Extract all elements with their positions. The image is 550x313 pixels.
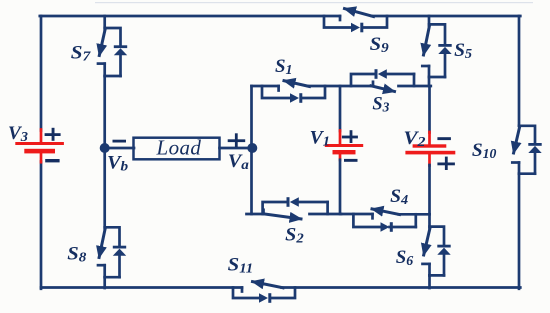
wire S5 bottom bracket xyxy=(429,76,445,79)
wire S8 bottom terminal xyxy=(103,265,106,277)
wire top right segment xyxy=(372,15,520,18)
wire V2 red stub bottom xyxy=(428,154,431,165)
wire S4 right stub to V2 bottom xyxy=(399,213,430,216)
wire S10 top bracket xyxy=(519,126,535,144)
diode D7 xyxy=(114,45,127,48)
wire S10 diode lower branch xyxy=(534,153,537,174)
wire S1 left bracket xyxy=(262,86,290,98)
wire S10 bottom terminal xyxy=(518,163,521,174)
svg-text:S1: S1 xyxy=(275,56,293,78)
wire V1 bottom blue xyxy=(339,160,342,214)
node S2 fixed contact tick xyxy=(262,210,265,214)
svg-text:S6: S6 xyxy=(396,247,414,269)
wire S7 bottom bracket xyxy=(105,75,121,78)
diode D3 xyxy=(375,69,378,79)
wire S8 bottom bracket xyxy=(105,276,120,279)
switch S11 xyxy=(233,282,295,303)
wire V3 red stub top xyxy=(40,130,43,144)
node S5 fixed contact tick xyxy=(422,65,429,68)
faint cropped figure border at top xyxy=(95,2,533,3)
wire S5 top bracket xyxy=(429,24,445,44)
svg-text:S5: S5 xyxy=(454,40,472,62)
wire S2 right stub to V1 bottom xyxy=(310,213,342,216)
wire S2 diode branch right xyxy=(299,201,328,204)
svg-text:S3: S3 xyxy=(372,93,389,115)
switch S6 blade xyxy=(424,228,430,256)
diode D10 xyxy=(528,143,541,146)
node Va xyxy=(247,143,257,153)
wire S3 right bracket xyxy=(413,74,416,86)
svg-text:Load: Load xyxy=(156,136,202,160)
minus sign V1 xyxy=(344,159,358,162)
switch S7 blade xyxy=(99,29,105,56)
minus sign V2 xyxy=(437,137,451,140)
switch S2 xyxy=(247,197,342,219)
plus sign V2 xyxy=(437,157,455,170)
wire S2 left bracket xyxy=(263,202,287,214)
switch S3 blade xyxy=(371,86,395,92)
wire S9 right bracket xyxy=(364,16,388,28)
svg-text:S11: S11 xyxy=(228,255,254,276)
switch S5 blade xyxy=(424,25,430,55)
svg-text:S10: S10 xyxy=(472,140,497,161)
node Vb xyxy=(100,143,110,153)
diode D8 xyxy=(113,246,126,249)
svg-text:V1: V1 xyxy=(310,129,331,150)
diode D1 xyxy=(290,93,299,103)
load box xyxy=(105,138,253,160)
wire S7 to node Vb xyxy=(103,76,106,148)
minus sign V3 xyxy=(45,159,59,162)
battery V1 xyxy=(325,86,363,214)
wire right border lower (from S10) xyxy=(518,174,521,289)
wire V2 top blue xyxy=(428,86,431,133)
switch S1 blade xyxy=(284,81,310,87)
wire Vb to load xyxy=(105,147,134,150)
switch S1 xyxy=(252,81,374,103)
wire S11 right bracket xyxy=(272,288,296,299)
switch S9 blade xyxy=(345,9,374,17)
wire load to Va xyxy=(220,147,253,150)
wire S4 right bracket xyxy=(414,214,417,227)
node S6 fixed contact tick xyxy=(423,263,430,266)
wire S1 right bracket xyxy=(303,86,326,98)
switch S9 xyxy=(324,9,387,33)
battery V3 xyxy=(15,128,64,163)
wire S6 diode lower branch xyxy=(443,254,446,275)
plus sign V3 xyxy=(45,128,61,141)
wire left border upper (to V3) xyxy=(40,16,43,131)
switch S4 xyxy=(341,209,430,232)
switch S4 blade xyxy=(372,209,400,215)
svg-text:V2: V2 xyxy=(404,129,426,150)
wire top left segment xyxy=(40,15,340,18)
minus sign at Vb xyxy=(113,140,127,143)
node S4 fixed contact tick xyxy=(371,214,374,218)
wire S5 bottom terminal xyxy=(428,66,431,77)
wire S6 top bracket xyxy=(430,227,445,245)
wire bottom right segment xyxy=(282,286,521,289)
wire S7 bottom terminal xyxy=(103,64,106,76)
wire V1 top blue xyxy=(339,86,342,131)
wire S4 diode branch right xyxy=(390,226,416,229)
switch S2 blade xyxy=(265,214,302,219)
wire S7 diode lower branch xyxy=(119,55,122,76)
wire V1 red stub bottom xyxy=(339,154,342,160)
switch S6 xyxy=(423,214,451,288)
load rectangle xyxy=(134,138,220,160)
svg-text:S4: S4 xyxy=(390,186,408,208)
svg-text:V3: V3 xyxy=(8,124,28,145)
wire V1 red stub top xyxy=(339,131,342,145)
wire S6 to bottom rail xyxy=(428,275,431,288)
wire S6 bottom terminal xyxy=(428,264,431,276)
node S3 fixed contact tick xyxy=(372,82,375,86)
svg-text:S7: S7 xyxy=(71,43,92,65)
wire S11 left bracket xyxy=(233,288,259,299)
switch S7 xyxy=(98,16,127,148)
diode D11 xyxy=(259,293,268,303)
plate V1 positive (long) xyxy=(325,144,363,147)
wire S5 top feed xyxy=(428,16,431,26)
svg-text:S2: S2 xyxy=(285,225,304,247)
wire S5 to S3 row xyxy=(428,77,431,86)
wire left border lower (from V3) xyxy=(40,162,43,289)
wire S3 left bracket xyxy=(351,74,375,86)
node S7 fixed contact tick xyxy=(98,62,105,65)
wire S6 top feed xyxy=(428,214,431,228)
svg-text:S9: S9 xyxy=(370,34,389,56)
diode D5 xyxy=(438,44,451,47)
wire S7 top feed xyxy=(103,16,106,29)
wire S8 to bottom rail xyxy=(103,277,106,288)
plus sign V1 xyxy=(342,130,358,143)
wire S2 right bracket xyxy=(326,202,329,214)
wire S4 left stub xyxy=(341,213,373,216)
switch S10 blade xyxy=(514,127,520,153)
diode D4 xyxy=(381,222,390,232)
wire bottom left segment xyxy=(41,286,242,289)
switch S8 blade xyxy=(99,228,105,258)
wire S8 diode lower branch xyxy=(118,255,121,277)
svg-text:Vb: Vb xyxy=(107,154,128,175)
node S1 fixed contact tick xyxy=(277,86,280,91)
switch S5 xyxy=(422,16,451,86)
svg-text:Va: Va xyxy=(228,152,249,173)
diode D2 xyxy=(287,197,290,207)
plate V1 negative (short thick) xyxy=(333,150,356,154)
wire right border upper (to S10) xyxy=(518,16,521,126)
plate V2 positive (long) xyxy=(405,151,455,155)
wire Va column xyxy=(250,86,253,214)
wire S6 bottom bracket xyxy=(430,274,445,277)
wire S8 top bracket xyxy=(105,227,120,246)
diode D6 xyxy=(437,245,450,248)
svg-text:S8: S8 xyxy=(67,244,86,266)
wire S4 left bracket xyxy=(353,214,380,227)
plate V2 negative (short thick) xyxy=(413,144,447,147)
wire V3 red stub bottom xyxy=(40,153,43,162)
wire V2 bottom blue xyxy=(428,165,431,214)
wire S1 left stub xyxy=(252,85,279,88)
node S8 fixed contact tick xyxy=(98,264,105,267)
plate V3 negative (short thick) xyxy=(24,149,55,154)
battery V2 xyxy=(405,86,455,214)
wire S3 diode branch right xyxy=(387,73,415,76)
switch S10 xyxy=(512,126,541,174)
plus sign at Va xyxy=(228,133,246,147)
wire V2 red stub top xyxy=(428,132,431,145)
node S9 fixed contact tick xyxy=(339,16,342,20)
wire S2 left stub xyxy=(247,213,265,216)
wire S10 bottom bracket xyxy=(519,172,535,175)
diode D9 xyxy=(351,23,360,33)
node S10 fixed contact tick xyxy=(512,161,519,164)
wire S9 left bracket xyxy=(324,16,351,28)
wire S1 to V1 top xyxy=(308,85,373,88)
wire S7 top bracket xyxy=(105,28,121,46)
wire S8 top feed xyxy=(103,148,106,229)
switch S3 xyxy=(351,69,431,91)
wire S5 diode lower branch xyxy=(444,54,447,77)
switch S8 xyxy=(98,148,126,288)
wire S3 right stub to V2 top xyxy=(399,85,431,88)
plate V3 positive (long) xyxy=(15,142,64,145)
switch S11 blade xyxy=(253,282,284,288)
node S11 fixed contact tick xyxy=(241,288,244,292)
